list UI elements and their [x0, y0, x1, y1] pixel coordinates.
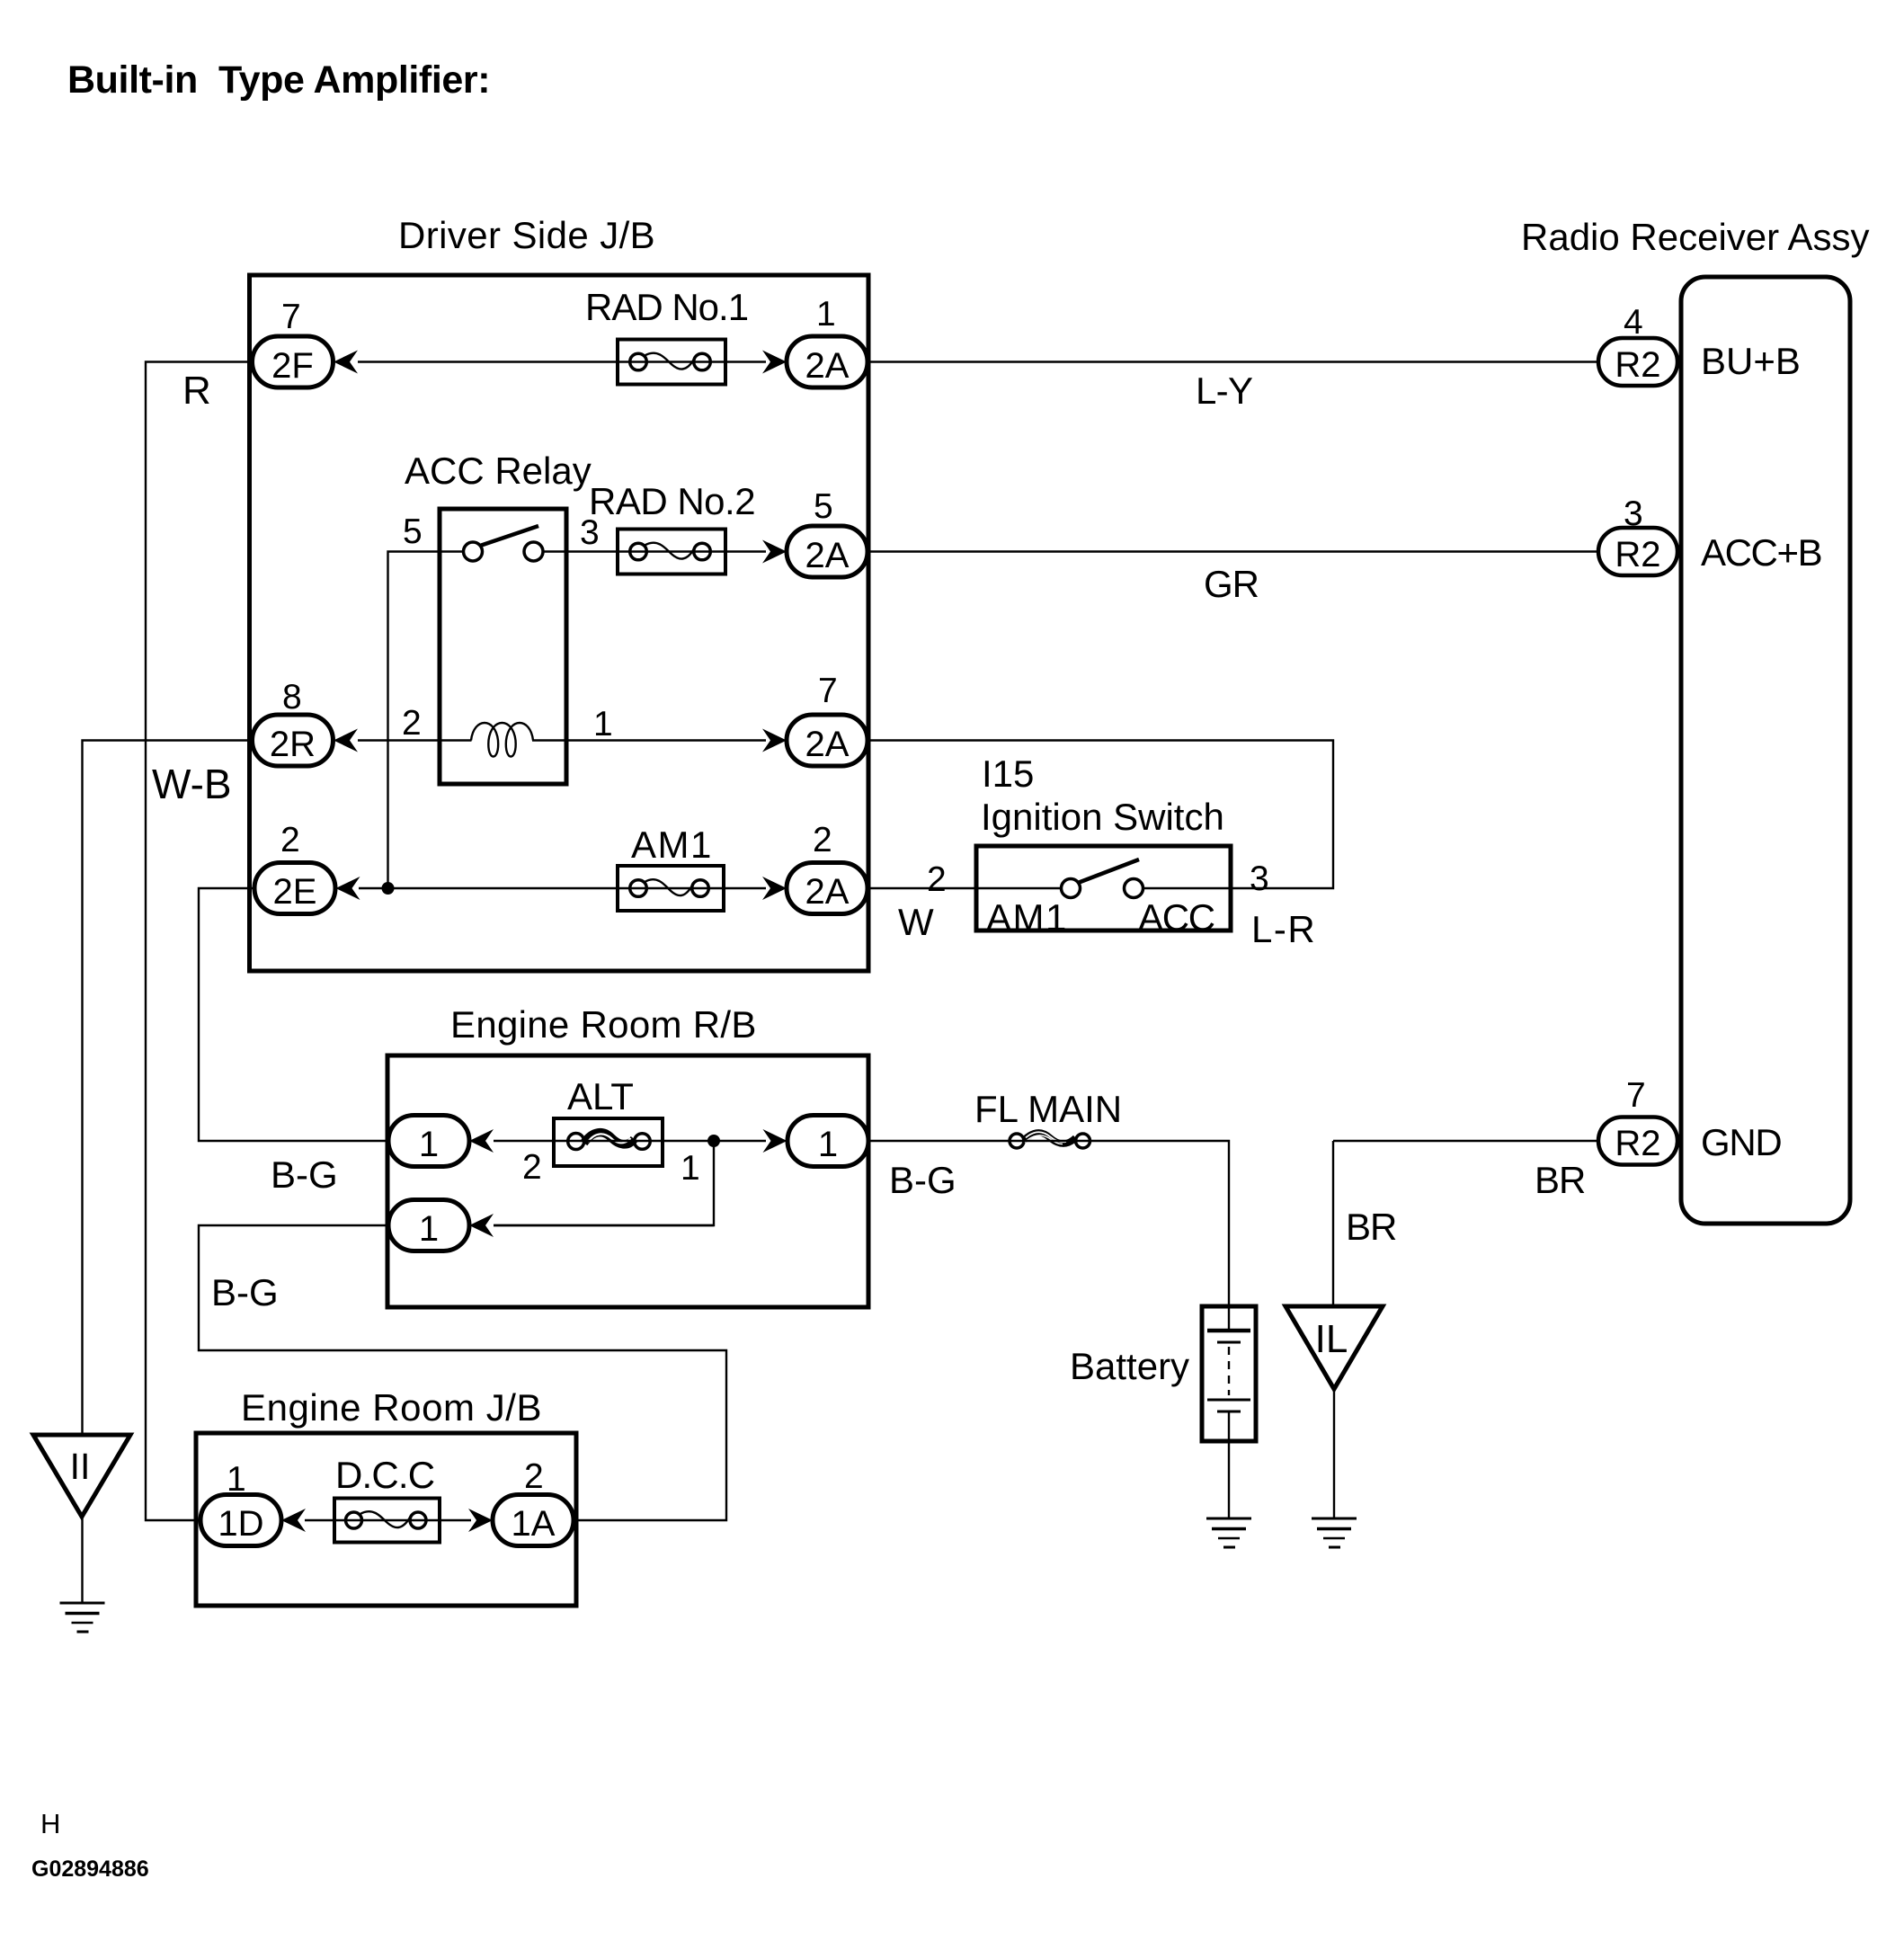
wire FL MAIN to battery: [1090, 1141, 1230, 1306]
arrow into 2A pin1: [762, 351, 787, 374]
svg-text:AM1: AM1: [631, 824, 713, 866]
svg-text:2: 2: [280, 821, 300, 859]
svg-text:Driver Side J/B: Driver Side J/B: [398, 214, 655, 256]
svg-text:2: 2: [813, 821, 832, 859]
svg-text:1D: 1D: [218, 1504, 263, 1544]
svg-text:1: 1: [681, 1149, 700, 1188]
svg-text:Radio Receiver Assy: Radio Receiver Assy: [1521, 216, 1870, 258]
label Engine Room J/B: [241, 1386, 542, 1429]
svg-text:2: 2: [522, 1148, 542, 1187]
label GND: [1701, 1121, 1781, 1163]
svg-text:2E: 2E: [273, 872, 317, 912]
svg-text:8: 8: [282, 678, 302, 717]
wire relay coil pin1 to 2A pin7: [532, 705, 766, 743]
wire R/B upper connector to ALT fuse: [494, 1140, 555, 1142]
arrow into 1A: [468, 1509, 493, 1532]
arrow into 2A pin2: [762, 877, 787, 900]
connector R2 pin3: [1598, 494, 1677, 575]
fuse FL MAIN fusible link: [974, 1088, 1122, 1148]
svg-text:ACC Relay: ACC Relay: [405, 450, 592, 492]
svg-text:L-R: L-R: [1251, 908, 1316, 950]
shield triangle II: [33, 1435, 130, 1517]
wire B-G to FL MAIN: [867, 1141, 1010, 1201]
wire R/B lower connector: [494, 1224, 714, 1226]
svg-text:B-G: B-G: [271, 1153, 338, 1196]
svg-text:B-G: B-G: [211, 1271, 279, 1313]
svg-text:1: 1: [818, 1125, 838, 1164]
node junction right of ALT fuse: [707, 1135, 720, 1147]
svg-text:B-G: B-G: [889, 1159, 956, 1201]
junction block Engine Room R/B: [387, 1055, 868, 1307]
connector 1 right: [787, 1116, 868, 1167]
wire 2R to relay coil pin2: [358, 704, 472, 743]
svg-text:GND: GND: [1701, 1121, 1781, 1163]
svg-text:FL MAIN: FL MAIN: [974, 1088, 1122, 1130]
svg-text:ALT: ALT: [567, 1075, 634, 1117]
svg-text:RAD No.1: RAD No.1: [585, 286, 748, 328]
wire 2F row inside J/B: [358, 361, 766, 362]
arrow into 2A pin7: [762, 729, 787, 752]
svg-text:Engine Room R/B: Engine Room R/B: [450, 1003, 757, 1046]
connector 2R: [253, 678, 334, 766]
svg-text:ACC: ACC: [1138, 896, 1214, 939]
svg-text:4: 4: [1624, 303, 1643, 342]
svg-text:1A: 1A: [512, 1504, 556, 1544]
label Driver Side J/B: [398, 214, 655, 256]
svg-text:3: 3: [1624, 494, 1643, 533]
svg-text:7: 7: [818, 672, 838, 710]
connector 2F: [253, 298, 334, 387]
connector 1A: [493, 1457, 574, 1546]
wire 2E to AM1 fuse: [359, 887, 618, 889]
connector 1D: [200, 1460, 281, 1546]
label Engine Room R/B: [450, 1003, 757, 1046]
svg-text:W: W: [898, 901, 934, 943]
wire RAD No.2 to 2A pin5: [725, 550, 766, 552]
arrow into 2F: [334, 351, 358, 374]
svg-text:RAD No.2: RAD No.2: [589, 480, 755, 522]
connector R2 pin4: [1598, 303, 1677, 386]
svg-text:II: II: [70, 1446, 91, 1487]
switch I15 Ignition Switch: [976, 752, 1231, 939]
svg-text:5: 5: [814, 487, 833, 526]
label BU+B: [1701, 340, 1801, 382]
relay ACC Relay box: [405, 450, 592, 784]
wire ALT fuse to R/B right connector: [663, 1140, 766, 1142]
arrow into 1D: [281, 1509, 306, 1532]
ground below IL: [1312, 1518, 1357, 1547]
wire D.C.C fuse to 1A: [440, 1519, 471, 1521]
svg-text:2A: 2A: [805, 872, 850, 912]
svg-text:L-Y: L-Y: [1196, 370, 1253, 412]
svg-text:2: 2: [927, 860, 947, 899]
svg-text:1: 1: [227, 1460, 246, 1499]
wire W to ignition switch pin2: [867, 860, 976, 943]
svg-text:BR: BR: [1346, 1206, 1396, 1248]
fuse RAD No.2: [589, 480, 755, 574]
wire L-R from ignition switch pin3: [1250, 859, 1316, 950]
svg-text:GR: GR: [1204, 563, 1259, 605]
wire GR to radio ACC+B: [867, 552, 1598, 606]
wire 1D to D.C.C fuse: [305, 1519, 334, 1521]
svg-text:W-B: W-B: [152, 761, 232, 807]
wire battery to ground: [1228, 1411, 1230, 1518]
arrow into 2R: [334, 729, 358, 752]
svg-text:D.C.C: D.C.C: [335, 1454, 434, 1496]
connector 1 upper left: [388, 1116, 469, 1167]
fuse AM1: [618, 824, 724, 911]
wire 2A pin7 loop to ignition switch pin3: [867, 741, 1333, 889]
svg-text:Ignition Switch: Ignition Switch: [981, 796, 1224, 838]
svg-text:I15: I15: [982, 752, 1034, 795]
wire L-Y to radio BU+B: [867, 362, 1598, 413]
arrow into 2E: [336, 877, 360, 900]
radio receiver assy box: [1681, 277, 1850, 1224]
svg-text:3: 3: [1250, 859, 1269, 898]
svg-text:2A: 2A: [805, 725, 850, 764]
svg-text:Built-in Type Amplifier:: Built-in Type Amplifier:: [67, 58, 490, 102]
connector 2E: [254, 821, 335, 914]
svg-text:2A: 2A: [805, 346, 850, 386]
svg-text:IL: IL: [1315, 1317, 1348, 1361]
wire BR to radio GND: [1333, 1141, 1598, 1201]
label ACC+B: [1701, 531, 1821, 574]
label Radio Receiver Assy: [1521, 216, 1870, 258]
node junction on 2E wire: [382, 882, 395, 895]
svg-text:1: 1: [816, 295, 836, 334]
battery: [1070, 1306, 1256, 1441]
svg-text:R2: R2: [1615, 1124, 1660, 1163]
connector R2 pin7: [1598, 1076, 1677, 1165]
svg-text:R2: R2: [1615, 345, 1660, 385]
svg-text:G02894886: G02894886: [31, 1856, 149, 1882]
junction block Engine Room J/B: [196, 1433, 576, 1606]
svg-text:1: 1: [419, 1209, 439, 1249]
svg-text:R2: R2: [1615, 535, 1660, 574]
svg-text:1: 1: [593, 705, 613, 743]
svg-text:7: 7: [1626, 1076, 1646, 1115]
svg-text:BU+B: BU+B: [1701, 340, 1801, 382]
svg-text:BR: BR: [1535, 1159, 1585, 1201]
wire IL to ground: [1333, 1389, 1335, 1518]
svg-text:2: 2: [524, 1457, 544, 1496]
ground below II: [60, 1603, 105, 1632]
svg-text:H: H: [40, 1808, 60, 1839]
svg-text:2F: 2F: [271, 346, 314, 386]
wire AM1 fuse to 2A pin2: [724, 887, 766, 889]
svg-text:2: 2: [402, 704, 422, 743]
svg-text:R: R: [182, 369, 211, 413]
note H: [40, 1808, 60, 1839]
wire II to ground: [81, 1517, 83, 1603]
wire junction drop to R/B lower connector: [494, 1141, 714, 1225]
junction block Driver Side J/B: [250, 275, 869, 971]
connector 2A pin5: [787, 487, 867, 577]
note G02894886: [31, 1856, 149, 1882]
wire BR down to IL: [1333, 1141, 1396, 1306]
arrow into 2A pin5: [762, 540, 787, 564]
arrow into connector 1 upper left: [469, 1129, 494, 1153]
svg-text:5: 5: [403, 512, 423, 551]
svg-text:Engine Room J/B: Engine Room J/B: [241, 1386, 542, 1429]
relay switch contacts: [440, 526, 568, 561]
fuse ALT: [522, 1075, 700, 1188]
svg-text:ACC+B: ACC+B: [1701, 531, 1821, 574]
fuse D.C.C: [334, 1454, 440, 1543]
wire relay pin5 down to 2E junction: [388, 512, 440, 888]
ground below battery: [1206, 1518, 1251, 1547]
connector 2A pin7: [787, 672, 867, 766]
shield triangle IL: [1286, 1306, 1383, 1389]
wire B-G from 2E to Engine Room R/B upper connector: [199, 888, 389, 1196]
svg-text:1: 1: [419, 1125, 439, 1164]
svg-text:7: 7: [281, 298, 301, 336]
wire relay pin3 to RAD No.2: [566, 513, 618, 552]
wire B-G from R/B lower connector to 1A: [199, 1225, 726, 1520]
arrow into R/B right connector: [763, 1129, 787, 1153]
connector 2A pin1: [787, 295, 867, 387]
connector 1 lower left: [388, 1200, 469, 1251]
connector 2A pin2: [787, 821, 867, 914]
relay coil: [471, 723, 533, 757]
svg-text:Battery: Battery: [1070, 1345, 1189, 1387]
svg-text:2R: 2R: [270, 725, 316, 764]
wire R from 2F to 1D: [146, 362, 253, 1521]
svg-text:2A: 2A: [805, 536, 850, 575]
wire W-B from 2R to II triangle: [83, 741, 254, 1436]
arrow into connector 1 lower left: [469, 1214, 494, 1237]
svg-text:AM1: AM1: [986, 896, 1068, 939]
fuse RAD No.1: [585, 286, 748, 385]
title Built-in Type Amplifier: [67, 58, 490, 102]
